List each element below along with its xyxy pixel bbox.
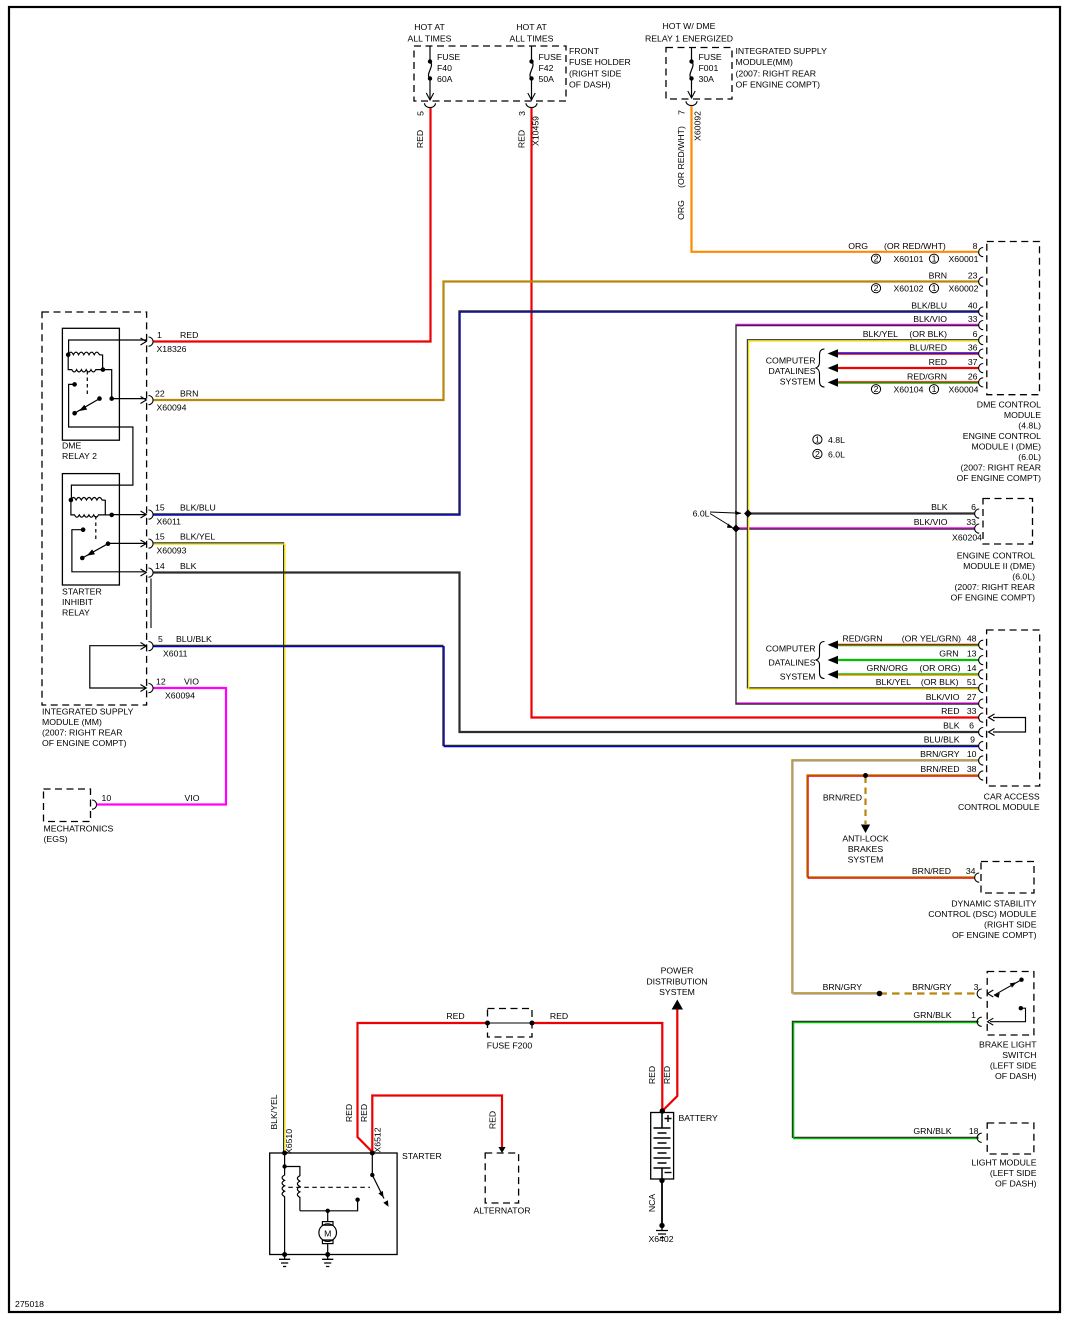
svg-text:RED: RED	[488, 1111, 498, 1129]
svg-text:4.8L: 4.8L	[828, 435, 845, 445]
svg-text:9: 9	[970, 735, 975, 745]
svg-text:SWITCH: SWITCH	[1002, 1050, 1036, 1060]
svg-text:MODULE(MM): MODULE(MM)	[736, 57, 794, 67]
svg-text:RED: RED	[344, 1104, 354, 1122]
svg-text:RED/GRN: RED/GRN	[842, 634, 882, 644]
svg-text:X60101: X60101	[894, 254, 924, 264]
svg-text:CONTROL MODULE: CONTROL MODULE	[958, 802, 1040, 812]
svg-text:(2007: RIGHT REAR: (2007: RIGHT REAR	[42, 728, 122, 738]
svg-text:STARTER: STARTER	[402, 1151, 442, 1161]
svg-text:50A: 50A	[539, 74, 555, 84]
svg-text:F40: F40	[437, 63, 452, 73]
svg-text:VIO: VIO	[185, 793, 200, 803]
svg-text:RED: RED	[517, 130, 527, 148]
svg-text:GRN/ORG: GRN/ORG	[866, 663, 908, 673]
svg-text:F42: F42	[539, 63, 554, 73]
svg-text:2: 2	[874, 384, 879, 394]
svg-text:SYSTEM: SYSTEM	[848, 855, 884, 865]
svg-text:MECHATRONICS: MECHATRONICS	[44, 824, 114, 834]
svg-text:BATTERY: BATTERY	[679, 1113, 718, 1123]
svg-text:BLK/BLU: BLK/BLU	[180, 503, 216, 513]
svg-text:ALL TIMES: ALL TIMES	[510, 34, 554, 44]
svg-text:10: 10	[102, 793, 112, 803]
svg-text:BRN/RED: BRN/RED	[912, 866, 951, 876]
svg-text:HOT W/ DME: HOT W/ DME	[663, 21, 716, 31]
svg-text:VIO: VIO	[184, 677, 199, 687]
svg-text:(OR YEL/GRN): (OR YEL/GRN)	[902, 634, 961, 644]
svg-text:BLK/YEL: BLK/YEL	[876, 677, 911, 687]
svg-text:RELAY 1 ENERGIZED: RELAY 1 ENERGIZED	[645, 34, 733, 44]
svg-text:(2007: RIGHT REAR: (2007: RIGHT REAR	[961, 463, 1041, 473]
svg-text:FUSE: FUSE	[437, 52, 460, 62]
svg-text:7: 7	[677, 110, 687, 115]
svg-text:33: 33	[966, 517, 976, 527]
svg-text:BRN/GRY: BRN/GRY	[823, 982, 863, 992]
svg-text:LIGHT MODULE: LIGHT MODULE	[971, 1158, 1036, 1168]
svg-text:6: 6	[973, 329, 978, 339]
svg-text:275018: 275018	[15, 1299, 44, 1309]
svg-text:X6402: X6402	[648, 1234, 673, 1244]
svg-text:18: 18	[969, 1126, 979, 1136]
svg-text:40: 40	[968, 301, 978, 311]
svg-text:DATALINES: DATALINES	[769, 658, 816, 668]
svg-text:BLU/RED: BLU/RED	[909, 343, 947, 353]
svg-text:DYNAMIC STABILITY: DYNAMIC STABILITY	[951, 899, 1036, 909]
svg-text:2: 2	[815, 449, 820, 459]
svg-text:HOT AT: HOT AT	[516, 22, 547, 32]
svg-text:POWER: POWER	[661, 966, 694, 976]
svg-text:14: 14	[967, 663, 977, 673]
svg-text:BRN: BRN	[180, 389, 198, 399]
svg-text:3: 3	[517, 111, 527, 116]
svg-text:GRN: GRN	[939, 649, 958, 659]
svg-text:6.0L: 6.0L	[828, 450, 845, 460]
svg-text:RED: RED	[415, 130, 425, 148]
svg-text:13: 13	[967, 649, 977, 659]
svg-text:BLK: BLK	[180, 561, 197, 571]
svg-text:SYSTEM: SYSTEM	[780, 377, 816, 387]
svg-text:(LEFT SIDE: (LEFT SIDE	[990, 1168, 1037, 1178]
svg-text:X60093: X60093	[157, 546, 187, 556]
svg-text:26: 26	[968, 372, 978, 382]
svg-text:RED: RED	[550, 1011, 568, 1021]
svg-text:30A: 30A	[699, 74, 715, 84]
svg-text:33: 33	[968, 314, 978, 324]
svg-text:6: 6	[971, 502, 976, 512]
svg-text:(2007: RIGHT REAR: (2007: RIGHT REAR	[955, 582, 1035, 592]
svg-text:INTEGRATED SUPPLY: INTEGRATED SUPPLY	[736, 46, 828, 56]
svg-text:BLK/YEL: BLK/YEL	[863, 329, 898, 339]
svg-text:RED: RED	[647, 1066, 657, 1084]
svg-text:27: 27	[967, 692, 977, 702]
svg-text:BLK/YEL: BLK/YEL	[269, 1094, 279, 1129]
svg-text:BLK: BLK	[931, 502, 948, 512]
svg-text:M: M	[324, 1229, 331, 1239]
svg-text:FUSE F200: FUSE F200	[487, 1041, 533, 1051]
svg-text:3: 3	[974, 982, 979, 992]
svg-text:OF ENGINE COMPT): OF ENGINE COMPT)	[952, 930, 1037, 940]
svg-text:X6510: X6510	[284, 1129, 294, 1154]
svg-text:10: 10	[967, 749, 977, 759]
svg-text:(OR ORG): (OR ORG)	[919, 663, 960, 673]
svg-text:OF ENGINE COMPT): OF ENGINE COMPT)	[736, 80, 821, 90]
svg-text:BRN/GRY: BRN/GRY	[920, 749, 960, 759]
svg-text:(6.0L): (6.0L)	[1012, 572, 1035, 582]
svg-text:22: 22	[155, 389, 165, 399]
svg-text:MODULE I (DME): MODULE I (DME)	[972, 442, 1042, 452]
svg-text:X6512: X6512	[373, 1127, 383, 1152]
svg-text:SYSTEM: SYSTEM	[780, 672, 816, 682]
svg-text:8: 8	[973, 241, 978, 251]
svg-text:51: 51	[967, 677, 977, 687]
svg-text:DME: DME	[62, 441, 82, 451]
svg-text:MODULE II (DME): MODULE II (DME)	[963, 561, 1035, 571]
svg-text:5: 5	[416, 111, 426, 116]
svg-text:X60002: X60002	[949, 284, 979, 294]
svg-text:FRONT: FRONT	[569, 46, 600, 56]
svg-text:(RIGHT SIDE: (RIGHT SIDE	[984, 920, 1037, 930]
svg-text:BLK/YEL: BLK/YEL	[180, 532, 215, 542]
svg-text:ALL TIMES: ALL TIMES	[408, 34, 452, 44]
svg-text:34: 34	[966, 866, 976, 876]
svg-text:F001: F001	[699, 63, 719, 73]
svg-text:X6011: X6011	[163, 649, 188, 659]
svg-text:FUSE: FUSE	[699, 52, 722, 62]
svg-text:37: 37	[968, 357, 978, 367]
svg-text:OF DASH): OF DASH)	[569, 80, 611, 90]
svg-text:BRAKES: BRAKES	[848, 844, 883, 854]
svg-text:X60094: X60094	[165, 691, 195, 701]
svg-text:48: 48	[967, 634, 977, 644]
svg-text:INTEGRATED SUPPLY: INTEGRATED SUPPLY	[42, 707, 134, 717]
svg-text:X60094: X60094	[157, 403, 187, 413]
svg-text:ENGINE CONTROL: ENGINE CONTROL	[963, 431, 1041, 441]
svg-text:RED: RED	[941, 706, 959, 716]
svg-text:BLK/VIO: BLK/VIO	[913, 314, 947, 324]
svg-text:1: 1	[932, 384, 937, 394]
svg-text:(OR RED/WHT): (OR RED/WHT)	[676, 126, 686, 188]
svg-text:FUSE HOLDER: FUSE HOLDER	[569, 57, 631, 67]
svg-text:GRN/BLK: GRN/BLK	[913, 1126, 951, 1136]
svg-text:GRN/BLK: GRN/BLK	[913, 1010, 951, 1020]
svg-text:RELAY 2: RELAY 2	[62, 451, 97, 461]
svg-text:1: 1	[932, 254, 937, 264]
svg-text:DME CONTROL: DME CONTROL	[977, 400, 1041, 410]
svg-text:X60004: X60004	[949, 385, 979, 395]
svg-text:36: 36	[968, 343, 978, 353]
svg-text:ANTI-LOCK: ANTI-LOCK	[842, 834, 889, 844]
svg-text:6.0L: 6.0L	[693, 509, 710, 519]
svg-text:RED: RED	[180, 330, 198, 340]
svg-text:RED: RED	[929, 357, 947, 367]
svg-text:X60104: X60104	[894, 385, 924, 395]
svg-text:ORG: ORG	[676, 200, 686, 220]
svg-text:OF ENGINE COMPT): OF ENGINE COMPT)	[951, 593, 1036, 603]
svg-text:RED/GRN: RED/GRN	[907, 372, 947, 382]
svg-text:X10459: X10459	[531, 116, 541, 146]
svg-text:BRN: BRN	[929, 271, 947, 281]
svg-text:STARTER: STARTER	[62, 587, 102, 597]
svg-text:2: 2	[874, 283, 879, 293]
svg-text:5: 5	[158, 634, 163, 644]
svg-text:BRN/GRY: BRN/GRY	[912, 982, 952, 992]
svg-text:INHIBIT: INHIBIT	[62, 597, 94, 607]
svg-text:23: 23	[968, 271, 978, 281]
svg-text:ALTERNATOR: ALTERNATOR	[474, 1206, 531, 1216]
svg-text:SYSTEM: SYSTEM	[659, 987, 695, 997]
svg-text:(6.0L): (6.0L)	[1018, 452, 1041, 462]
svg-text:2: 2	[874, 254, 879, 264]
svg-text:1: 1	[815, 434, 820, 444]
svg-text:MODULE: MODULE	[1004, 410, 1041, 420]
svg-text:DATALINES: DATALINES	[769, 366, 816, 376]
svg-text:X60102: X60102	[894, 284, 924, 294]
svg-text:MODULE (MM): MODULE (MM)	[42, 717, 102, 727]
svg-text:BLK: BLK	[943, 721, 960, 731]
svg-text:(OR RED/WHT): (OR RED/WHT)	[884, 241, 946, 251]
svg-text:ORG: ORG	[848, 241, 868, 251]
svg-text:X60001: X60001	[949, 254, 979, 264]
svg-text:RELAY: RELAY	[62, 608, 90, 618]
svg-text:1: 1	[157, 330, 162, 340]
svg-text:ENGINE CONTROL: ENGINE CONTROL	[957, 551, 1035, 561]
svg-text:1: 1	[971, 1010, 976, 1020]
svg-text:(EGS): (EGS)	[44, 834, 68, 844]
svg-text:(2007: RIGHT REAR: (2007: RIGHT REAR	[736, 69, 816, 79]
svg-text:14: 14	[155, 561, 165, 571]
svg-text:HOT AT: HOT AT	[414, 22, 445, 32]
svg-text:CAR ACCESS: CAR ACCESS	[984, 792, 1040, 802]
svg-text:RED: RED	[359, 1104, 369, 1122]
svg-text:CONTROL (DSC) MODULE: CONTROL (DSC) MODULE	[928, 909, 1036, 919]
svg-text:OF ENGINE COMPT): OF ENGINE COMPT)	[957, 473, 1042, 483]
svg-text:BRAKE LIGHT: BRAKE LIGHT	[979, 1040, 1037, 1050]
svg-text:38: 38	[967, 764, 977, 774]
svg-text:RED: RED	[662, 1066, 672, 1084]
svg-text:BLK/VIO: BLK/VIO	[914, 517, 948, 527]
svg-text:RED: RED	[446, 1011, 464, 1021]
svg-text:X6011: X6011	[157, 517, 182, 527]
svg-text:COMPUTER: COMPUTER	[766, 644, 816, 654]
svg-text:(RIGHT SIDE: (RIGHT SIDE	[569, 69, 622, 79]
svg-text:X60092: X60092	[693, 111, 703, 141]
svg-text:BRN/RED: BRN/RED	[823, 793, 862, 803]
svg-text:OF DASH): OF DASH)	[995, 1071, 1037, 1081]
svg-text:BRN/RED: BRN/RED	[920, 764, 959, 774]
svg-text:BLK/VIO: BLK/VIO	[926, 692, 960, 702]
svg-text:12: 12	[156, 677, 166, 687]
svg-text:FUSE: FUSE	[539, 52, 562, 62]
svg-text:(LEFT SIDE: (LEFT SIDE	[990, 1061, 1037, 1071]
svg-text:33: 33	[967, 706, 977, 716]
svg-text:60A: 60A	[437, 74, 453, 84]
svg-text:(OR BLK): (OR BLK)	[909, 329, 947, 339]
svg-text:X60204: X60204	[952, 533, 982, 543]
svg-text:OF ENGINE COMPT): OF ENGINE COMPT)	[42, 738, 127, 748]
svg-text:OF DASH): OF DASH)	[995, 1179, 1037, 1189]
svg-text:15: 15	[155, 532, 165, 542]
svg-text:BLU/BLK: BLU/BLK	[924, 735, 960, 745]
svg-text:X18326: X18326	[157, 344, 187, 354]
svg-text:COMPUTER: COMPUTER	[766, 356, 816, 366]
svg-text:1: 1	[932, 283, 937, 293]
svg-text:BLK/BLU: BLK/BLU	[911, 301, 947, 311]
svg-text:NCA: NCA	[647, 1194, 657, 1213]
svg-text:(4.8L): (4.8L)	[1018, 421, 1041, 431]
svg-text:15: 15	[155, 503, 165, 513]
svg-text:DISTRIBUTION: DISTRIBUTION	[646, 977, 707, 987]
svg-text:(OR BLK): (OR BLK)	[921, 677, 959, 687]
svg-text:BLU/BLK: BLU/BLK	[176, 634, 212, 644]
svg-text:6: 6	[969, 721, 974, 731]
